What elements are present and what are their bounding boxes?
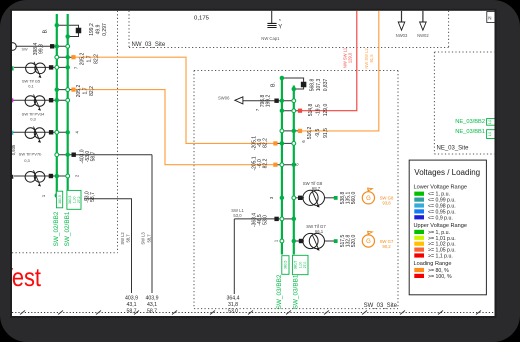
svg-text:560,0: 560,0	[351, 192, 357, 205]
svg-text:G: G	[366, 196, 371, 202]
svg-text:<= 0,9 p.u.: <= 0,9 p.u.	[428, 215, 453, 221]
svg-text:NW Cap1: NW Cap1	[261, 36, 280, 41]
svg-text:Y: Y	[278, 24, 282, 30]
svg-text:43,1: 43,1	[126, 302, 136, 308]
svg-text:>= 1,1 p.u.: >= 1,1 p.u.	[428, 254, 453, 260]
svg-text:129,0: 129,0	[323, 104, 329, 117]
svg-text:NW02: NW02	[417, 33, 429, 38]
svg-text:-19,5: -19,5	[316, 104, 322, 116]
svg-text:27,2: 27,2	[77, 196, 81, 203]
svg-text:SW06: SW06	[218, 95, 230, 100]
svg-text:>= 100, %: >= 100, %	[428, 274, 452, 280]
svg-text:1,0: 1,0	[488, 119, 492, 124]
svg-text:380,5: 380,5	[58, 195, 62, 204]
svg-text:N: N	[488, 16, 491, 21]
svg-text:0,297: 0,297	[102, 23, 108, 36]
svg-text:0,3: 0,3	[30, 117, 36, 122]
svg-text:99,8: 99,8	[39, 44, 45, 54]
svg-text:Loading Range: Loading Range	[414, 261, 452, 267]
svg-text:-9,5: -9,5	[315, 128, 321, 137]
svg-text:SW_02/BB1: SW_02/BB1	[64, 211, 71, 246]
svg-text:NE_03/BB1: NE_03/BB1	[455, 129, 485, 135]
svg-text:Voltages / Loading: Voltages / Loading	[414, 168, 480, 177]
svg-text:380,5: 380,5	[68, 195, 72, 204]
svg-text:31,8: 31,8	[228, 302, 238, 308]
svg-text:SW L2: SW L2	[120, 232, 125, 245]
svg-text:93,8: 93,8	[382, 201, 391, 206]
svg-text:205,2: 205,2	[76, 85, 82, 98]
svg-text:90,2: 90,2	[382, 244, 391, 249]
svg-text:199,2: 199,2	[266, 95, 272, 108]
svg-text:SW Tif PV7b: SW Tif PV7b	[19, 152, 42, 157]
svg-text:205,2: 205,2	[79, 53, 85, 66]
svg-text:1,0: 1,0	[488, 132, 492, 137]
svg-text:SW_03/BB2: SW_03/BB2	[276, 274, 283, 309]
svg-text:SW_03_Site: SW_03_Site	[364, 303, 398, 309]
svg-text:SW: SW	[22, 48, 29, 52]
svg-text:82,2: 82,2	[262, 138, 268, 148]
svg-text:91,5: 91,5	[323, 128, 329, 138]
svg-text:82,2: 82,2	[89, 86, 95, 96]
svg-text:53,0: 53,0	[262, 215, 268, 225]
svg-text:1,7: 1,7	[86, 55, 92, 62]
svg-text:403,9: 403,9	[125, 296, 138, 302]
svg-text:SW_03/BB1: SW_03/BB1	[292, 274, 299, 309]
svg-text:568,8: 568,8	[310, 79, 316, 92]
svg-text:B.: B.	[271, 82, 277, 87]
svg-text:364,4: 364,4	[227, 296, 240, 302]
svg-text:53,0: 53,0	[228, 308, 238, 314]
svg-text:53,0: 53,0	[233, 213, 242, 218]
svg-text:G: G	[366, 239, 371, 245]
svg-text:0,1: 0,1	[28, 84, 34, 89]
svg-text:68,7: 68,7	[312, 186, 321, 191]
svg-text:1,00: 1,00	[72, 196, 76, 203]
svg-text:380,5: 380,5	[294, 261, 298, 270]
svg-text:0,837: 0,837	[323, 79, 329, 92]
svg-text:91,5: 91,5	[369, 54, 374, 63]
svg-text:58,7: 58,7	[126, 308, 136, 314]
svg-text:66,1: 66,1	[315, 229, 324, 234]
svg-text:NE_03/BB2: NE_03/BB2	[455, 119, 485, 125]
svg-text:27,0: 27,0	[303, 262, 307, 269]
svg-text:Upper Voltage Range: Upper Voltage Range	[414, 223, 468, 229]
svg-text:1,00: 1,00	[298, 262, 302, 269]
svg-text:82,2: 82,2	[93, 54, 99, 64]
svg-text:520,0: 520,0	[351, 235, 357, 248]
svg-text:SW_02/BB2: SW_02/BB2	[53, 211, 60, 246]
svg-text:43,1: 43,1	[147, 302, 157, 308]
svg-text:B.: B.	[42, 29, 48, 34]
svg-text:107,3: 107,3	[316, 79, 322, 92]
svg-text:Lower Voltage Range: Lower Voltage Range	[414, 184, 468, 190]
svg-text:NW_03_Site: NW_03_Site	[132, 42, 166, 48]
svg-text:1,7: 1,7	[83, 87, 89, 94]
svg-text:516,2: 516,2	[307, 127, 313, 140]
svg-text:0,175: 0,175	[194, 16, 209, 22]
svg-text:0,3: 0,3	[24, 158, 30, 163]
svg-text:58,7: 58,7	[90, 151, 96, 161]
svg-text:58,7: 58,7	[90, 192, 96, 202]
svg-text:129,0: 129,0	[347, 52, 352, 63]
svg-text:82,2: 82,2	[262, 158, 268, 168]
svg-text:58,7: 58,7	[147, 234, 152, 243]
svg-text:380,5: 380,5	[284, 260, 288, 269]
svg-text:58,7: 58,7	[126, 234, 131, 243]
svg-text:SW L3: SW L3	[141, 232, 146, 245]
svg-text:199,2: 199,2	[89, 23, 95, 36]
svg-text:49,9: 49,9	[95, 24, 101, 34]
svg-text:514,8: 514,8	[308, 104, 314, 117]
svg-text:NE_03_Site: NE_03_Site	[437, 146, 470, 152]
svg-text:403,9: 403,9	[146, 296, 159, 302]
svg-text:NW03: NW03	[396, 33, 408, 38]
svg-text:58,7: 58,7	[147, 308, 157, 314]
